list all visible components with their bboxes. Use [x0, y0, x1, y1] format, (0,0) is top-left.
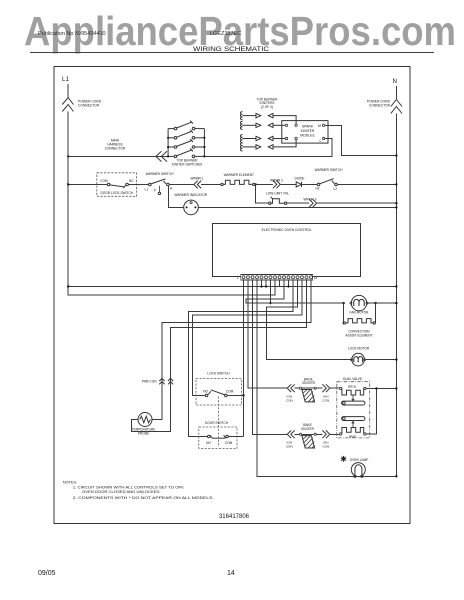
connector IGN CON bake left [287, 430, 294, 438]
wire terminal 11 stub [288, 280, 290, 287]
svg-text:P: P [154, 189, 156, 193]
svg-text:COM: COM [100, 179, 108, 183]
lock motor B2 [348, 347, 370, 366]
probe connector PRB CON B [168, 378, 173, 384]
junction dot terminal 11 stub [287, 285, 289, 287]
svg-text:OVEN LAMP: OVEN LAMP [350, 458, 369, 462]
broil valve armature arrow [352, 396, 354, 402]
svg-text:ASSIST ELEMENT: ASSIST ELEMENT [345, 333, 372, 337]
oven lamp DS2 [341, 456, 369, 478]
wire H terminal down to warmer indicator [168, 186, 183, 208]
svg-text:WARMER SWITCH: WARMER SWITCH [315, 168, 344, 172]
wire L1 bus vertical [68, 112, 275, 296]
wire terminal 2 to broil igniter row [248, 280, 287, 388]
svg-text:N: N [393, 78, 397, 85]
header rule [30, 52, 434, 54]
svg-text:IGNITER: IGNITER [302, 381, 316, 385]
svg-text:CON: CON [322, 444, 329, 448]
svg-text:PRB CON: PRB CON [142, 379, 157, 383]
junction dot crossover at N [395, 285, 397, 287]
connector WRMR 2 [273, 181, 280, 189]
broil igniter E1 [300, 377, 317, 402]
wire to bake igniter [295, 433, 300, 435]
wire terminal 12 to door switch NO [189, 280, 293, 437]
svg-text:H2: H2 [316, 187, 320, 191]
label power cord connector right [367, 100, 391, 108]
wire warmer indicator to N [198, 206, 396, 208]
electronic oven control U2 [213, 223, 361, 276]
wire element junction to WRMR2 [256, 183, 273, 185]
label IGN CON bake right [322, 441, 329, 449]
wire warmer switch H to WRMR1 [169, 184, 193, 186]
wire broil connector to dual valve [330, 387, 340, 389]
svg-text:MODULE: MODULE [300, 133, 315, 137]
svg-text:NOTES:: NOTES: [63, 480, 77, 484]
warmer element R1 [221, 173, 255, 186]
svg-text:LOW LIMIT THL: LOW LIMIT THL [266, 191, 289, 195]
lock switch [196, 371, 242, 405]
wire WRMR2 to diode [280, 183, 296, 185]
temperature probe RT1 [132, 413, 156, 436]
svg-text:DOOR SWITCH: DOOR SWITCH [205, 421, 229, 425]
svg-text:COM: COM [226, 390, 234, 394]
svg-text:H: H [170, 187, 173, 191]
svg-text:WRMR 1: WRMR 1 [191, 177, 204, 181]
bake valve solenoid L2coil [340, 428, 367, 439]
svg-text:M: M [318, 124, 321, 128]
junction dot L1 warmer row [67, 183, 69, 185]
svg-text:(2 OF 4): (2 OF 4) [261, 105, 273, 109]
wire igniter switches to spark module L [204, 139, 331, 157]
broil valve solenoid L1coil [340, 385, 367, 395]
svg-text:Publication No 5995434410: Publication No 5995434410 [38, 31, 106, 37]
connector WRMR 3 [309, 199, 316, 207]
wire bake igniter to connector [316, 433, 322, 435]
svg-text:CON: CON [322, 398, 329, 402]
svg-text:LOCK SWITCH: LOCK SWITCH [207, 371, 230, 375]
wire L1 to N crossover [68, 286, 396, 288]
wire bake connector to dual valve [330, 433, 340, 435]
main harness connector [156, 151, 167, 161]
wire terminal 9 stub [279, 280, 281, 287]
junction dot lock motor row at N [395, 358, 397, 360]
svg-text:DOOR LOCK SWITCH: DOOR LOCK SWITCH [101, 191, 134, 195]
bake igniter E2 [300, 423, 317, 448]
probe connector PRB CON A [159, 378, 164, 384]
svg-text:CON: CON [286, 398, 293, 402]
svg-text:PROBE: PROBE [138, 431, 149, 435]
svg-text:NO: NO [206, 441, 211, 445]
svg-text:WARMER SWITCH: WARMER SWITCH [146, 172, 175, 176]
junction dot indicator row at N [395, 206, 397, 208]
wire N vertical top [395, 86, 397, 99]
junction dot L2 row at N [395, 183, 397, 185]
door switch [199, 421, 237, 449]
spark igniter module U1 [282, 121, 328, 144]
wire terminal 5 stub [261, 280, 263, 287]
power cord connector L1 [62, 98, 73, 112]
low limit thermostat [269, 197, 287, 205]
power cord connector N [391, 100, 402, 114]
svg-text:L1: L1 [62, 76, 69, 83]
label IGN CON bake left [286, 441, 293, 449]
igniter 4 [240, 140, 296, 151]
junction dot lock COM [242, 394, 244, 396]
svg-text:1. CIRCUIT SHOWN WITH ALL CON: 1. CIRCUIT SHOWN WITH ALL CONTROLS SET T… [73, 485, 185, 489]
svg-text:09/05: 09/05 [38, 570, 56, 577]
junction dot broil valve row [375, 387, 377, 389]
fan motor B1 [350, 295, 370, 314]
label top burner igniters [257, 97, 278, 109]
wire WRMR3 to N [317, 202, 397, 204]
convection assist element R2 [343, 303, 376, 337]
wire bake valve up to broil row [366, 389, 376, 435]
connector IGN CON bake right [322, 430, 329, 438]
label main harness connector [105, 139, 126, 151]
notes block [63, 480, 214, 500]
wire warmer row from L1 [68, 184, 107, 186]
wire diode to warmer switch 2 [302, 183, 318, 185]
svg-text:WIRING SCHEMATIC: WIRING SCHEMATIC [193, 46, 269, 53]
wire lock switch COM to junction [227, 394, 243, 396]
broil valve body [342, 401, 365, 405]
svg-text:IGNITER: IGNITER [301, 129, 315, 133]
svg-text:FAN MOTOR: FAN MOTOR [350, 310, 370, 314]
svg-text:L: L [320, 139, 322, 143]
svg-text:SPARK: SPARK [302, 125, 314, 129]
svg-text:IGNITER: IGNITER [301, 427, 315, 431]
junction dots fan motor row [342, 302, 397, 304]
wire terminal 4 to oven lamp row [257, 280, 396, 476]
svg-text:LGEZ387EC: LGEZ387EC [210, 31, 241, 37]
bake valve body [342, 417, 365, 421]
svg-text:316417806: 316417806 [219, 514, 250, 520]
wire fan motor to N [367, 302, 397, 304]
wire lock motor to N [366, 359, 397, 361]
igniter 1 [240, 112, 296, 125]
wire door lock switch to warmer switch [128, 184, 148, 186]
label IGN CON broil right [322, 395, 329, 403]
svg-text:CONNECTOR: CONNECTOR [105, 147, 126, 151]
junction dot WRMR3 row at N [395, 202, 397, 204]
svg-text:CONNECTOR: CONNECTOR [369, 104, 391, 108]
wire terminal 16 to probe right [152, 280, 311, 419]
svg-text:WARMER INDICATOR: WARMER INDICATOR [175, 193, 208, 197]
connector IGN CON broil left [287, 384, 294, 392]
wire broil igniter to connector [316, 387, 322, 389]
igniter 2 [240, 121, 285, 129]
wire terminal 6 stub [265, 280, 267, 287]
door lock switch [97, 173, 137, 197]
igniter 3 [240, 135, 285, 143]
junction dot crossover at L1 [67, 285, 69, 287]
svg-text:IGNITER SWITCHES: IGNITER SWITCHES [172, 162, 203, 166]
wire thermostat to WRMR3 [287, 202, 309, 204]
svg-text:DUAL VALVE: DUAL VALVE [343, 377, 362, 381]
warmer switch S2 [315, 168, 344, 191]
warmer switch S1 [145, 172, 175, 194]
junction node warmer element / low limit [254, 183, 256, 185]
svg-text:WRMR 2: WRMR 2 [270, 178, 283, 182]
wire warmer switch L2 to N [337, 183, 396, 185]
wire broil valve to N [366, 388, 396, 390]
wire spark module M to N [325, 125, 397, 155]
wire terminal 15 to probe left [132, 280, 307, 431]
junction dot terminal 6 stub [265, 285, 267, 287]
bake valve armature arrow [352, 421, 354, 427]
header publication number text [38, 31, 241, 37]
connector WRMR 1 [194, 181, 201, 189]
wire terminal 3 to bake igniter row [253, 280, 288, 434]
wire door switch COM to junction [228, 436, 243, 438]
schematic border frame [54, 67, 410, 524]
svg-text:16: 16 [314, 276, 318, 280]
junction dot terminal 7 fan row [269, 302, 271, 304]
wire terminal 13 to lock motor [267, 280, 353, 360]
wire WRMR1 to warmer element [201, 184, 221, 186]
svg-text:CONNECTOR: CONNECTOR [78, 104, 100, 108]
wire N bus vertical [395, 114, 397, 477]
svg-text:LOCK MOTOR: LOCK MOTOR [348, 347, 370, 351]
diode D1 [294, 176, 304, 187]
wire L1 row to igniter switches [68, 155, 168, 157]
connector IGN CON broil right [322, 384, 329, 392]
wire terminal 14 to lock switch NO [193, 280, 302, 395]
mechanical link lock to door switch [218, 397, 220, 447]
svg-text:BAKE: BAKE [349, 435, 357, 439]
junction dot M wire at N [395, 154, 397, 156]
wire terminal 10 to fan motor [246, 280, 343, 303]
junction dots igniter switch buses [167, 137, 205, 158]
label power cord connector left [78, 100, 102, 108]
wire terminal 7 to fan motor row [270, 280, 272, 303]
svg-text:NO: NO [203, 390, 208, 394]
svg-text:BROIL: BROIL [348, 385, 357, 389]
label IGN CON broil left [286, 395, 293, 403]
junction dot lamp row at N [395, 475, 397, 477]
wire L1 vertical top [67, 84, 69, 97]
junction dot broil valve row at N [395, 387, 397, 389]
svg-text:L2: L2 [334, 187, 338, 191]
junction dot terminal 5 stub [260, 285, 262, 287]
svg-text:14: 14 [227, 570, 235, 577]
svg-text:WARMER ELEMENT: WARMER ELEMENT [224, 173, 254, 177]
junction dot L1 igniter row [67, 155, 69, 157]
svg-text:2. COMPONENTS WITH * DO NOT: 2. COMPONENTS WITH * DO NOT APPEAR ON AL… [73, 496, 214, 500]
warmer indicator lamp DS1 [175, 193, 208, 215]
top burner igniter switches [168, 121, 204, 158]
svg-text:NC: NC [129, 179, 134, 183]
svg-text:COM: COM [225, 441, 233, 445]
svg-text:CON: CON [286, 444, 293, 448]
dual valve assembly [337, 377, 370, 438]
svg-text:DIODE: DIODE [294, 176, 304, 180]
wire low limit branch down [256, 184, 269, 203]
label top burner igniter switches [172, 158, 203, 166]
svg-text:L1: L1 [145, 187, 149, 191]
svg-text:OVEN DOOR CLOSED AND UNLOCKED.: OVEN DOOR CLOSED AND UNLOCKED. [82, 490, 161, 494]
EOC terminal strip [237, 275, 318, 280]
wire to broil igniter [295, 387, 300, 389]
svg-text:ELECTRONIC OVEN CONTROL: ELECTRONIC OVEN CONTROL [262, 228, 312, 232]
wire terminal 1 to lock and door switch COM [243, 280, 245, 437]
